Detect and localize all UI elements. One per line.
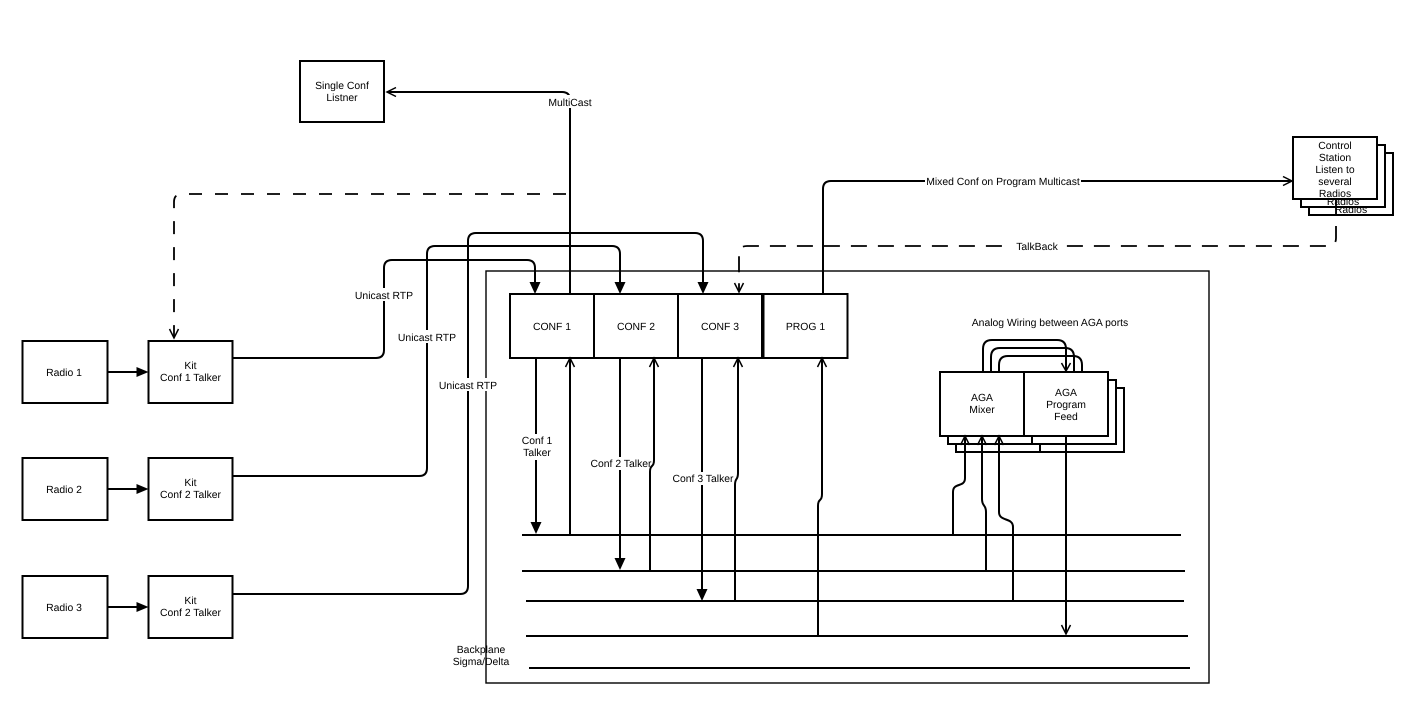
label Conf 1 Talker (519, 434, 555, 460)
svg-text:Conf 3 Talker: Conf 3 Talker (672, 474, 734, 485)
label Backplane Sigma/Delta (453, 645, 510, 668)
svg-text:Analog Wiring between AGA port: Analog Wiring between AGA ports (972, 318, 1129, 329)
wire Radio3 to Kit3 (108, 602, 149, 612)
svg-text:Talker: Talker (523, 448, 551, 459)
wire dashed multicast listen to Kit1 (170, 194, 567, 338)
svg-text:Listner: Listner (326, 93, 358, 104)
wire bus line 1 up to CONF1 (566, 358, 575, 535)
wire AGA Program Feed down to bus line 4 (1062, 436, 1071, 634)
box Radio 1 (23, 341, 108, 403)
label Unicast RTP 2 (398, 330, 456, 344)
wire dashed TalkBack: Control Station to CONF3 (735, 199, 1337, 292)
svg-text:Single Conf: Single Conf (315, 81, 369, 92)
box Control Station front (1293, 137, 1377, 200)
svg-text:Backplane: Backplane (457, 645, 506, 656)
wire bus line 3 up to AGA Mixer port c (995, 436, 1014, 601)
box PROG 1 (764, 294, 848, 358)
svg-text:CONF 3: CONF 3 (701, 322, 739, 333)
label Conf 3 Talker (671, 472, 735, 485)
backplane container box (486, 271, 1209, 683)
svg-text:Unicast RTP: Unicast RTP (398, 333, 456, 344)
box Control Station stack back (1309, 153, 1393, 216)
wire Kit3 to CONF3 (Unicast RTP) (233, 233, 709, 594)
svg-text:AGA: AGA (1055, 388, 1077, 399)
wire Radio2 to Kit2 (108, 484, 149, 494)
svg-text:Unicast RTP: Unicast RTP (439, 381, 497, 392)
wire bus line 3 up to CONF3 (734, 358, 743, 601)
box Kit Conf 2 Talker (row 2) (149, 458, 233, 520)
label TalkBack (1008, 240, 1066, 253)
svg-text:Kit: Kit (184, 478, 196, 489)
box Kit Conf 1 Talker (149, 341, 233, 403)
wire Conf 2 Talker: CONF2 down to bus line 2 (615, 358, 626, 570)
wire Conf 3 Talker: CONF3 down to bus line 3 (697, 358, 708, 601)
label Mixed Conf on Program Multicast (925, 175, 1081, 188)
backplane bus line 5 (529, 667, 1190, 669)
svg-text:Unicast RTP: Unicast RTP (355, 291, 413, 302)
svg-text:Station: Station (1319, 153, 1352, 164)
wire bus line 2 up to CONF2 (650, 358, 659, 571)
svg-text:Conf 1: Conf 1 (522, 436, 553, 447)
svg-text:Radios: Radios (1319, 189, 1351, 200)
svg-text:CONF 2: CONF 2 (617, 322, 655, 333)
box AGA stack middle pair (948, 380, 1116, 444)
box CONF 2 (594, 294, 678, 358)
svg-text:CONF 1: CONF 1 (533, 322, 571, 333)
box CONF 1 (510, 294, 594, 358)
label Conf 2 Talker (589, 457, 653, 470)
box Kit Conf 2 Talker (row 3) (149, 576, 233, 638)
wire Kit2 to CONF2 (Unicast RTP) (233, 246, 626, 476)
label MultiCast (546, 95, 594, 109)
box AGA Mixer (940, 372, 1024, 436)
box Radio 2 (23, 458, 108, 520)
backplane bus line 4 (526, 635, 1188, 637)
svg-text:several: several (1318, 177, 1352, 188)
box AGA Program Feed (1024, 372, 1108, 436)
svg-text:Mixer: Mixer (969, 405, 995, 416)
box Control Station stack middle (1301, 145, 1385, 208)
backplane bus line 1 (522, 534, 1181, 536)
svg-text:TalkBack: TalkBack (1016, 242, 1058, 253)
wire bus line 2 up to AGA Mixer port b (978, 436, 987, 571)
svg-text:Radio 3: Radio 3 (46, 603, 82, 614)
wire analog loop 2 (middle) (991, 348, 1074, 372)
wire Mixed Conf: PROG1 top to Control Station (823, 177, 1292, 295)
box Radio 3 (23, 576, 108, 638)
backplane bus line 2 (522, 570, 1185, 572)
svg-text:Conf 1 Talker: Conf 1 Talker (160, 373, 222, 384)
svg-text:MultiCast: MultiCast (548, 98, 591, 109)
svg-text:Feed: Feed (1054, 412, 1078, 423)
backplane bus line 3 (526, 600, 1184, 602)
box CONF 3 (678, 294, 762, 358)
svg-text:Sigma/Delta: Sigma/Delta (453, 657, 510, 668)
svg-text:Kit: Kit (184, 361, 196, 372)
wire Kit1 to CONF1 (Unicast RTP) (233, 260, 541, 358)
svg-text:Radio 2: Radio 2 (46, 485, 82, 496)
wire Radio1 to Kit1 (108, 367, 149, 377)
label Unicast RTP 1 (355, 288, 413, 302)
box AGA stack back pair (956, 388, 1124, 452)
svg-text:Listen to: Listen to (1315, 165, 1355, 176)
svg-text:Conf 2 Talker: Conf 2 Talker (590, 459, 652, 470)
svg-text:AGA: AGA (971, 393, 993, 404)
label Unicast RTP 3 (439, 378, 497, 392)
wire analog loop 3 (inner) (999, 356, 1082, 372)
wire bus line 1 up to AGA Mixer port a (953, 436, 970, 535)
svg-text:Program: Program (1046, 400, 1086, 411)
wire analog loop 1 (outer) AGA Mixer to Program Feed (983, 340, 1071, 372)
svg-text:Control: Control (1318, 141, 1352, 152)
wire Conf 1 Talker: CONF1 down to bus line 1 (531, 358, 542, 534)
svg-text:Kit: Kit (184, 596, 196, 607)
svg-text:Conf 2 Talker: Conf 2 Talker (160, 608, 222, 619)
svg-text:Mixed Conf on Program Multicas: Mixed Conf on Program Multicast (926, 177, 1080, 188)
svg-text:Conf 2 Talker: Conf 2 Talker (160, 490, 222, 501)
wire MultiCast: CONF1 top to Single Conf Listner (387, 88, 570, 295)
box Single Conf Listner (300, 61, 384, 122)
svg-text:Radio 1: Radio 1 (46, 368, 82, 379)
wire bus line 4 up to PROG1 (818, 358, 827, 636)
svg-text:PROG 1: PROG 1 (786, 322, 825, 333)
